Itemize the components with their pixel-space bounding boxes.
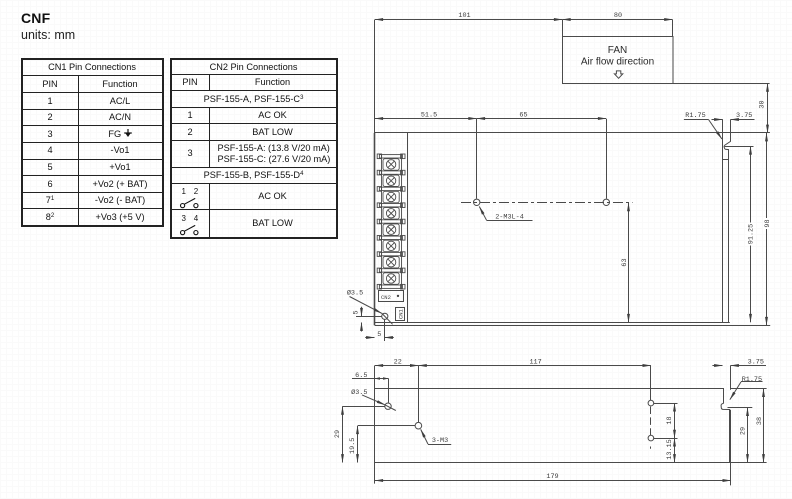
extension line to Ø3.5 hole (388, 379, 390, 403)
dim 13.15 (674, 438, 676, 462)
extension line fan right (672, 20, 674, 37)
dim 19.5 (357, 426, 359, 463)
terminal screw 6 (383, 240, 399, 252)
dim 29 right (747, 408, 749, 463)
dashed hole column line (650, 407, 652, 436)
dim 22 (375, 365, 419, 367)
svg-text:19.5: 19.5 (349, 438, 357, 454)
hole Ø3.5 top view (382, 313, 388, 319)
label 2-M3L-4 with leader (479, 207, 486, 221)
svg-text:22: 22 (394, 358, 402, 366)
dim 5 vertical (361, 307, 363, 317)
hole Ø3.5 bottom view (385, 403, 391, 409)
dim 63 (628, 203, 630, 322)
svg-text:30: 30 (759, 100, 767, 108)
extension left edge up (374, 366, 376, 389)
svg-text:65: 65 (519, 112, 527, 120)
CN1 connector box (396, 308, 405, 321)
terminal screw 4 (383, 208, 399, 220)
svg-text:3.75: 3.75 (748, 359, 764, 367)
terminal barrier bar 4 (379, 204, 402, 207)
hole 3-M3 center (415, 422, 422, 429)
terminal screw 5 (383, 224, 399, 236)
left edge extension up to dim 101 (374, 20, 376, 133)
CN2 connector box (379, 291, 404, 302)
svg-text:3-M3: 3-M3 (432, 437, 448, 445)
terminal block rails (381, 155, 383, 289)
dim 5 horizontal (365, 337, 374, 339)
dim 179 (375, 480, 731, 482)
CN1 pin connections table (22, 59, 163, 226)
terminal screw 7 (383, 257, 399, 269)
top view bottom outer edge (extended right) (375, 325, 771, 327)
units label (21, 28, 75, 42)
terminal screw 1 (383, 159, 399, 171)
hole 3-M3 right bottom (648, 435, 654, 441)
svg-text:80: 80 (614, 12, 622, 20)
hole 2-M3L-4 left (474, 199, 480, 205)
svg-text:CN1: CN1 (398, 308, 405, 319)
svg-text:29: 29 (740, 427, 748, 435)
extension line right hole bottom (654, 438, 678, 440)
extension line to right hole column (650, 366, 652, 401)
svg-text:CN2: CN2 (381, 294, 391, 301)
svg-text:38: 38 (756, 417, 764, 425)
top view top edge (extended right) (375, 132, 770, 134)
top view right body edge (722, 119, 724, 322)
dim 98 (766, 133, 768, 325)
terminal screw 2 (383, 175, 399, 187)
svg-text:29: 29 (334, 430, 342, 438)
extension line top edge right (731, 388, 767, 390)
top view left edge (374, 133, 376, 325)
dim 6.5 (352, 378, 375, 380)
svg-text:5: 5 (353, 310, 361, 314)
extension line bottom edge right (731, 462, 767, 464)
dim 117 (418, 365, 651, 367)
dim 3.75 top right (712, 119, 723, 121)
extension line to 3-M3 hole (418, 366, 420, 423)
center line through 2-M3 holes (461, 202, 633, 204)
dim 3.75 bottom view (712, 365, 722, 367)
label 3-M3 with leader (421, 429, 428, 444)
svg-text:2-M3L-4: 2-M3L-4 (495, 213, 524, 221)
extension line flange edge (730, 366, 732, 390)
extension left for dim 179 (374, 463, 376, 484)
svg-text:3.75: 3.75 (736, 112, 752, 120)
extension line to right M3 hole (606, 119, 608, 199)
fan bottom edge extended right (673, 83, 770, 85)
top view right flange edge with R1.75 notch (724, 120, 730, 323)
fan housing box (563, 37, 674, 84)
svg-text:117: 117 (529, 358, 541, 366)
dim 30 (fan height) (767, 83, 769, 133)
extension line hole2 left (358, 425, 415, 427)
dim 65 (477, 118, 607, 120)
terminal barrier bar 1 (379, 155, 402, 158)
svg-text:18: 18 (666, 416, 674, 424)
terminal barrier bar 5 (379, 220, 402, 223)
dim 29 left (342, 406, 344, 462)
dim 80 (fan section) (562, 19, 672, 21)
svg-text:179: 179 (546, 473, 558, 481)
terminal screw 8 (383, 273, 399, 285)
top view bottom inner edge (375, 322, 730, 324)
svg-text:101: 101 (458, 12, 470, 20)
title CNF (21, 10, 50, 26)
extension line for dim 91.25 (725, 146, 754, 148)
dim 18 (674, 403, 676, 438)
extension right for dim 179 (730, 410, 732, 486)
terminal barrier bar 9 (379, 285, 402, 288)
flange joint tick (723, 159, 729, 161)
dim 51.5 (375, 118, 477, 120)
R1.75 underline (684, 119, 709, 121)
extension line notch bottom (728, 407, 753, 409)
terminal barrier bar 3 (379, 187, 402, 190)
dim 91.25 (750, 146, 752, 322)
dim 38 (763, 389, 765, 463)
CN2 pin connections table (171, 59, 337, 239)
svg-text:98: 98 (764, 219, 772, 227)
hole 3-M3 right top (648, 400, 654, 406)
svg-text:91.25: 91.25 (747, 224, 755, 244)
extension line fan left (562, 20, 564, 37)
dim 101 (top overall left) (375, 19, 563, 21)
terminal barrier bar 6 (379, 236, 402, 239)
bottom view outline with right notch (375, 389, 730, 463)
svg-text:51.5: 51.5 (421, 112, 437, 120)
svg-text:13.15: 13.15 (666, 439, 674, 459)
svg-text:FAN: FAN (608, 45, 627, 56)
svg-text:Ø3.5: Ø3.5 (347, 289, 363, 298)
svg-text:63: 63 (621, 258, 629, 266)
terminal block (8 screw terminals) (377, 154, 405, 289)
terminal screw 3 (383, 191, 399, 203)
terminal barrier bar 2 (379, 171, 402, 174)
svg-text:5: 5 (377, 331, 381, 339)
terminal barrier bar 8 (379, 269, 402, 272)
svg-text:Air flow direction: Air flow direction (581, 57, 654, 68)
svg-text:Ø3.5: Ø3.5 (351, 388, 367, 397)
svg-text:R1.75: R1.75 (742, 376, 762, 384)
svg-text:6.5: 6.5 (355, 372, 367, 380)
fan air-flow hollow down arrow (614, 71, 622, 78)
hole center reference line (356, 316, 382, 318)
hole 2-M3L-4 right (603, 199, 609, 205)
extension line right hole top (654, 403, 678, 405)
terminal barrier bar 7 (379, 252, 402, 255)
extension line to left M3 hole (476, 119, 478, 199)
svg-text:R1.75: R1.75 (685, 112, 705, 120)
R1.75 underline bottom view (741, 381, 763, 383)
hole vertical extension line (384, 319, 386, 341)
terminal-block area separator line (407, 133, 409, 322)
extension line hole1 left (342, 406, 384, 408)
